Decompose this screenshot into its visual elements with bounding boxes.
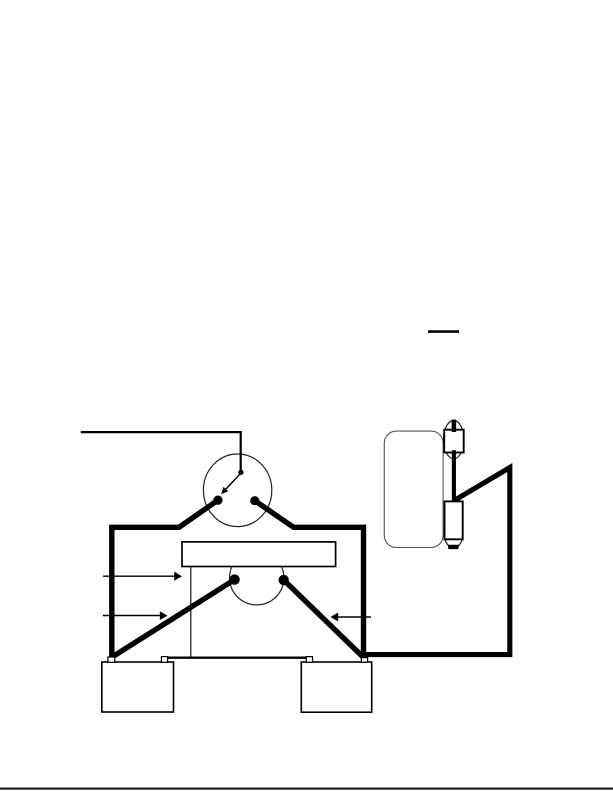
motor brush left (dot) — [229, 574, 239, 584]
connector rectangle — [445, 501, 463, 539]
wire: motor brush to battery positive (thick diagonal) — [284, 580, 364, 658]
switch contact right (dot) — [250, 496, 259, 505]
switch lever arrow — [226, 474, 241, 490]
battery 1 jumper terminal — [161, 657, 167, 663]
arrow pointing to field coil — [103, 575, 175, 577]
connector body ellipse — [444, 523, 462, 548]
footer rule — [0, 788, 613, 790]
battery jumper wire — [164, 657, 311, 659]
wire: thick box right side (switch terminal to battery positive) — [255, 501, 364, 658]
arrow pointing to motor area (right) — [338, 616, 371, 618]
wire: motor brush to battery negative (thick diagonal) — [111, 580, 234, 658]
ignition switch circle — [203, 454, 271, 527]
battery 1 negative terminal — [108, 657, 115, 662]
battery 2 (right) — [301, 662, 371, 712]
motor brush right (dot) — [279, 575, 289, 585]
battery 1 (left) — [102, 662, 174, 712]
connector bottom contact (black nub) — [448, 545, 459, 549]
node: switch common — [238, 470, 243, 475]
battery 2 positive terminal — [361, 658, 367, 663]
fuse top lead stub — [452, 420, 457, 432]
battery 2 jumper terminal — [306, 657, 312, 663]
arrow pointing to motor area (left) — [103, 615, 160, 617]
switch contact left (dot) — [213, 496, 222, 505]
wire: ignition feed (top-left L wire) — [81, 432, 241, 472]
wire: fuse to connector — [452, 450, 456, 501]
thin vertical wire inside box — [190, 567, 192, 658]
starter motor circle — [230, 551, 284, 605]
fuse rectangle — [444, 430, 464, 453]
wire: thick box left side (switch terminal to battery negative) — [112, 500, 218, 657]
underline mark above diagram — [428, 330, 459, 333]
wire: fuse to battery positive (right loop) — [365, 468, 510, 655]
fuse body ellipse — [444, 421, 464, 459]
relay rounded box — [384, 431, 443, 547]
field coil rectangle — [182, 542, 336, 567]
